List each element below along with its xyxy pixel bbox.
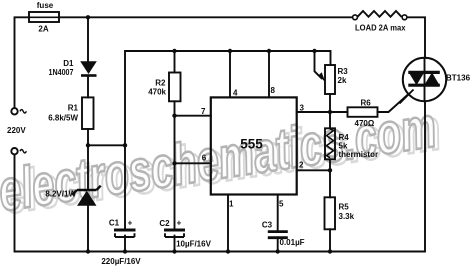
wire R5 bottom to ground <box>329 229 331 251</box>
svg-text:LOAD 2A max: LOAD 2A max <box>355 24 406 33</box>
svg-text:1: 1 <box>229 200 234 209</box>
wire top rail fuse to LOAD <box>59 16 353 18</box>
label ~ terminal 2 <box>20 150 26 153</box>
wire pin3 node to R4 top <box>329 112 331 128</box>
wire C1 column / +V rail riser <box>125 51 331 229</box>
svg-text:C3: C3 <box>262 221 273 230</box>
resistor R2 <box>169 73 181 102</box>
wire R3 wiper <box>315 51 322 78</box>
junction ground / C2 <box>172 249 176 253</box>
junction rail / R2 <box>172 49 176 53</box>
svg-text:C2: C2 <box>159 219 170 228</box>
svg-text:BT136: BT136 <box>446 74 471 83</box>
junction pin3 / R4 <box>328 110 332 114</box>
svg-text:C1: C1 <box>109 219 120 228</box>
wire D1 cathode to R1 <box>87 77 89 98</box>
wire pin 1 to ground <box>227 195 229 252</box>
wire pin 6 <box>175 162 211 164</box>
inductor LOAD coil <box>358 11 402 17</box>
label ~ terminal 1 <box>20 110 26 113</box>
wire pin 3 to R6 <box>297 111 348 113</box>
junction ground / C3 <box>276 249 280 253</box>
junction ground / R5 <box>328 249 332 253</box>
svg-text:220V: 220V <box>7 126 26 135</box>
svg-text:3.3k: 3.3k <box>339 212 355 221</box>
wire pin 8 <box>268 51 270 97</box>
AC terminal 1 <box>11 108 17 114</box>
svg-text:220µF/16V: 220µF/16V <box>101 257 141 266</box>
junction top rail / D1 <box>86 15 90 19</box>
junction rail / R3 wiper <box>312 49 316 53</box>
capacitor C1 <box>114 230 136 237</box>
LOAD terminal right <box>402 15 407 20</box>
svg-text:R3: R3 <box>338 67 349 76</box>
watermark electroschematics.com <box>0 93 445 227</box>
svg-text:R2: R2 <box>155 79 166 88</box>
svg-text:0.01µF: 0.01µF <box>280 238 305 247</box>
potentiometer R3 <box>319 65 336 94</box>
svg-text:555: 555 <box>240 137 263 152</box>
junction pin7 / R2 <box>172 114 176 118</box>
wire triac vertical through symbol <box>424 58 426 101</box>
wire pin 2 <box>297 169 330 171</box>
wire pin 7 <box>175 115 211 117</box>
diode D1 <box>80 61 97 75</box>
junction rail / pin4 <box>228 49 232 53</box>
wire R2 bottom / pin7 / pin6 / C2 column <box>174 101 176 228</box>
svg-text:6.8k/5W: 6.8k/5W <box>48 114 78 123</box>
fuse F1 <box>29 12 59 22</box>
wire R1 bottom to zener cathode (node +V) <box>87 129 89 189</box>
svg-text:R5: R5 <box>339 203 350 212</box>
svg-text:2k: 2k <box>338 76 347 85</box>
wire left vertical from fuse to AC terminal 1 <box>15 17 30 108</box>
junction pin6 / C2 <box>172 161 176 165</box>
svg-text:R6: R6 <box>361 99 372 108</box>
wire pin 5 to C3 <box>277 195 279 233</box>
junction +V / C1 column <box>123 143 127 147</box>
svg-text:470k: 470k <box>148 88 166 97</box>
wire R2 top stub <box>174 51 176 73</box>
wire pin 4 <box>229 51 231 97</box>
resistor R5 <box>325 197 336 229</box>
wire pin2 node to R5 top <box>329 170 331 197</box>
wire D1 anode from top rail <box>87 17 89 61</box>
triac T1 BT136 <box>400 58 447 104</box>
capacitor C2 <box>164 230 185 237</box>
wire C3 bottom to ground <box>277 238 279 252</box>
svg-text:+: + <box>128 219 133 228</box>
svg-text:2A: 2A <box>38 25 48 34</box>
wire zener anode to bottom rail <box>87 206 89 252</box>
junction +V / R1 bottom <box>86 143 90 147</box>
svg-text:8: 8 <box>271 86 276 95</box>
LOAD terminal left <box>353 15 358 20</box>
svg-text:1N4007: 1N4007 <box>49 68 74 77</box>
svg-text:R1: R1 <box>68 104 79 113</box>
wire +V branch to C1 column <box>88 144 125 146</box>
zener diode ZD1 8.2V <box>72 186 101 206</box>
svg-text:2: 2 <box>299 161 304 170</box>
svg-text:5: 5 <box>279 200 284 209</box>
wire LOAD right to triac MT2 <box>407 17 425 58</box>
capacitor C3 <box>268 232 288 238</box>
junction ground / C1 <box>123 249 127 253</box>
svg-text:7: 7 <box>201 107 206 116</box>
junction ground / zener <box>86 249 90 253</box>
svg-text:fuse: fuse <box>37 1 54 10</box>
svg-text:8.2V/1W: 8.2V/1W <box>45 190 76 199</box>
svg-text:470Ω: 470Ω <box>355 119 375 128</box>
IC 555 U1 <box>211 97 297 194</box>
wire R6 to triac gate <box>378 90 414 113</box>
wire R4 bottom to pin2 node <box>329 159 331 170</box>
wire bottom rail from AC terminal 2 to triac MT1 <box>15 101 426 251</box>
junction rail / pin8 <box>267 49 271 53</box>
junction pin2 / R4 / R5 <box>328 168 332 172</box>
svg-text:D1: D1 <box>63 59 74 68</box>
svg-text:+: + <box>177 219 182 228</box>
svg-text:4: 4 <box>233 89 238 98</box>
svg-text:thermistor: thermistor <box>339 150 379 159</box>
resistor R6 <box>348 107 378 117</box>
svg-text:6: 6 <box>202 154 207 163</box>
wire C1 bottom to ground <box>124 236 126 252</box>
svg-text:10µF/16V: 10µF/16V <box>176 240 212 249</box>
wire C2 bottom to ground <box>174 236 176 252</box>
AC terminal 2 <box>11 148 17 154</box>
thermistor R4 <box>325 128 335 159</box>
wire R3 bottom to pin3 node <box>329 94 331 112</box>
svg-text:3: 3 <box>300 104 305 113</box>
junction ground / pin1 <box>226 249 230 253</box>
resistor R1 <box>82 97 94 129</box>
